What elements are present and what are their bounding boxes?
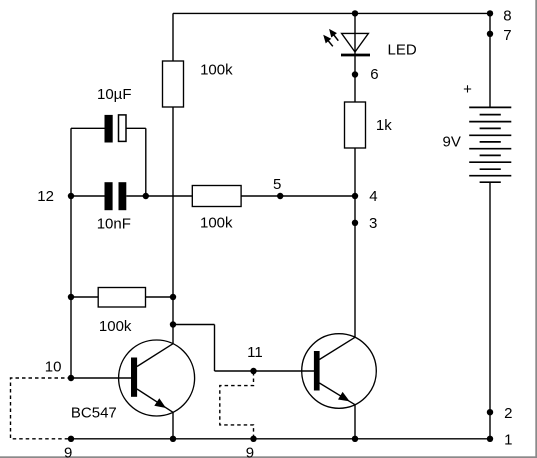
svg-text:LED: LED xyxy=(388,41,417,58)
node junction T1 emitter xyxy=(170,436,176,442)
svg-text:BC547: BC547 xyxy=(71,404,117,421)
wire LED/1k chain vertical xyxy=(354,13,356,337)
svg-text:8: 8 xyxy=(503,7,511,24)
capacitor C2 10nF plate right xyxy=(119,182,127,210)
node 3 xyxy=(352,220,358,226)
border frame right xyxy=(535,0,537,458)
resistor R3 100k horizontal bottom xyxy=(98,288,145,308)
wire T1 emitter vertical xyxy=(172,412,174,439)
battery BT1 9V xyxy=(469,107,511,182)
node 12 xyxy=(68,193,74,199)
svg-text:10µF: 10µF xyxy=(97,86,132,103)
node 6 xyxy=(352,71,358,77)
node 11 xyxy=(250,368,256,374)
svg-text:1k: 1k xyxy=(376,117,392,134)
wire top horizontal xyxy=(173,12,490,14)
node 4 xyxy=(352,193,358,199)
svg-text:9: 9 xyxy=(64,445,72,458)
transistor Q1 emitter arrowhead xyxy=(154,398,166,408)
transistor Q2 emitter arrowhead xyxy=(338,392,350,402)
node 8 xyxy=(487,10,493,16)
node junction 100k bottom right xyxy=(170,294,176,300)
wire node 11 link vertical xyxy=(214,325,216,372)
svg-text:100k: 100k xyxy=(200,62,233,79)
transistor Q2 emitter line xyxy=(319,383,355,405)
wire right bottom vertical (battery - to node 1) xyxy=(489,182,491,439)
transistor Q2 circle xyxy=(302,334,377,409)
svg-text:2: 2 xyxy=(504,405,512,422)
node junction 10nF right xyxy=(143,193,149,199)
node junction top LED branch xyxy=(352,10,358,16)
wire 10uF left lead xyxy=(71,127,105,129)
transistor Q2 collector line xyxy=(319,337,355,359)
svg-text:6: 6 xyxy=(370,66,378,83)
wire node 11 to T2 base xyxy=(215,370,315,372)
svg-text:+: + xyxy=(463,81,472,98)
svg-text:10: 10 xyxy=(45,359,62,376)
transistor Q2 base bar xyxy=(314,351,320,391)
wire bottom horizontal (node 9 to node 1) xyxy=(71,438,490,440)
wire 10uF right lead xyxy=(126,127,146,129)
transistor Q1 emitter line xyxy=(137,389,173,412)
svg-text:1: 1 xyxy=(504,431,512,448)
wire 10nF to 100k to node 4 xyxy=(126,195,355,197)
wire dashed touch switch right (node 11 to node 9) xyxy=(220,372,254,439)
svg-text:9V: 9V xyxy=(443,134,461,151)
resistor R2 100k horizontal mid xyxy=(192,186,241,207)
node junction 100k bottom left xyxy=(68,294,74,300)
node 10 xyxy=(68,375,74,381)
wire 100k bottom right lead xyxy=(146,296,174,298)
wire T1 base xyxy=(71,377,131,379)
svg-text:100k: 100k xyxy=(99,318,132,335)
LED D1 cathode bar xyxy=(341,54,370,57)
wire right top vertical (node 8 to battery +) xyxy=(489,13,491,107)
LED D1 triangle xyxy=(342,33,369,52)
capacitor C1 10uF plate right (hollow) xyxy=(119,115,127,141)
svg-text:5: 5 xyxy=(273,176,281,193)
svg-text:10nF: 10nF xyxy=(97,215,131,232)
svg-text:7: 7 xyxy=(503,27,511,44)
wire 100k bottom left lead xyxy=(71,296,98,298)
wire mid vertical x=173 top xyxy=(172,13,174,343)
node 5 xyxy=(277,193,283,199)
transistor Q1 base bar xyxy=(131,358,137,397)
wire left vertical x=71 xyxy=(70,128,72,378)
resistor R4 1k vertical xyxy=(345,102,366,148)
svg-text:11: 11 xyxy=(247,344,263,361)
node 1 xyxy=(487,436,493,442)
svg-text:4: 4 xyxy=(369,188,377,205)
wire T2 emitter vertical xyxy=(354,405,356,439)
LED D1 emission arrow 1 xyxy=(320,32,335,48)
svg-text:9: 9 xyxy=(246,445,254,458)
border frame bottom xyxy=(0,456,537,458)
svg-text:3: 3 xyxy=(369,215,377,232)
node 7 xyxy=(487,31,493,37)
capacitor C2 10nF plate left xyxy=(105,182,113,210)
svg-text:100k: 100k xyxy=(200,215,233,232)
node 9 right xyxy=(250,436,256,442)
svg-text:12: 12 xyxy=(37,188,54,205)
wire 10uF right vertical xyxy=(145,128,147,196)
wire collector to node 11 link horizontal xyxy=(173,324,215,326)
node 9 left xyxy=(68,436,74,442)
capacitor C1 10uF plate left (filled) xyxy=(105,115,113,143)
resistor R1 100k vertical top xyxy=(163,61,184,107)
transistor Q1 collector line xyxy=(137,344,173,367)
wire node 12 horizontal xyxy=(71,195,105,197)
LED D1 emission arrow 2 xyxy=(326,27,341,43)
node 2 xyxy=(487,409,493,415)
node junction collector link xyxy=(170,321,176,327)
transistor Q1 BC547 circle xyxy=(119,340,195,416)
node junction T2 emitter xyxy=(352,436,358,442)
wire dashed touch switch left (node 10 to node 9) xyxy=(11,378,72,439)
